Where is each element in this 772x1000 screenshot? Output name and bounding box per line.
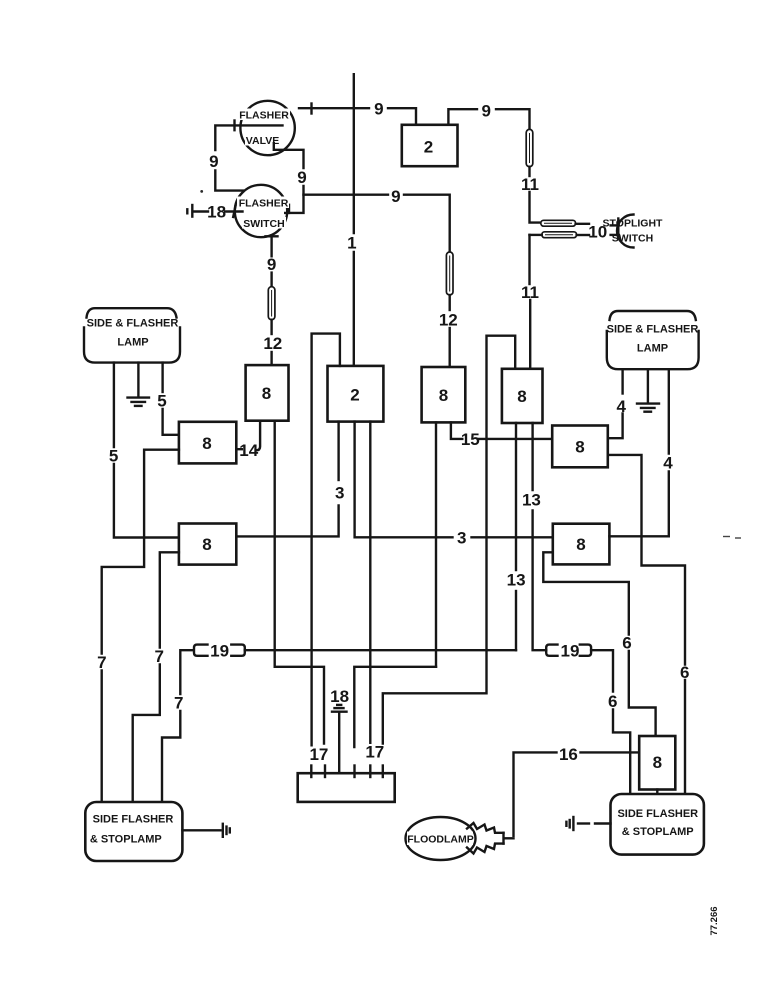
wire 6 from U7 left to box 8 U8: [543, 552, 655, 736]
label 8 (U7): [576, 535, 585, 554]
label 8 (U4): [202, 535, 211, 554]
svg-text:& STOPLAMP: & STOPLAMP: [90, 833, 162, 845]
svg-text:FLOODLAMP: FLOODLAMP: [407, 834, 474, 846]
svg-text:6: 6: [680, 663, 689, 682]
fuse on wire 11: [526, 129, 533, 166]
svg-text:4: 4: [616, 397, 626, 416]
svg-text:6: 6: [622, 634, 631, 653]
wire 7 third (connector 19 left to left stoplamp): [162, 650, 194, 802]
label 5 (upper): [157, 392, 166, 411]
wire 12 into box 8 U1: [270, 320, 272, 365]
wire 9 battery to fuse 11: [448, 109, 529, 129]
fuse on wire 12 left: [268, 287, 275, 320]
svg-text:9: 9: [297, 168, 306, 187]
connector strip: [298, 766, 395, 802]
svg-text:9: 9: [374, 100, 383, 119]
svg-text:14: 14: [239, 441, 258, 460]
side flasher & stoplamp left box: [85, 802, 182, 861]
svg-text:SIDE FLASHER: SIDE FLASHER: [93, 814, 174, 826]
label 9 (switch bottom): [267, 255, 276, 274]
wire 3 left (box2 to U4): [236, 422, 338, 537]
label 5 (lower): [109, 447, 118, 466]
svg-text:SIDE & FLASHER: SIDE & FLASHER: [607, 324, 699, 336]
svg-text:8: 8: [439, 386, 448, 405]
svg-text:8: 8: [202, 535, 211, 554]
label 15: [461, 430, 480, 449]
label STOPLIGHT: [603, 218, 663, 230]
flasher switch circle: [235, 185, 289, 237]
label 4 (upper): [616, 397, 626, 416]
svg-text:LAMP: LAMP: [117, 337, 148, 349]
wire 12 into box 8 U3: [449, 295, 451, 367]
svg-text:2: 2: [424, 138, 433, 157]
svg-text:SWITCH: SWITCH: [243, 218, 284, 230]
wire 6 from connector 19 right to right stoplamp: [591, 650, 630, 794]
wire 11 upper: [530, 167, 541, 223]
label 9 (row1): [374, 100, 383, 119]
svg-text:6: 6: [608, 692, 617, 711]
fuse on wire 12 right: [446, 252, 453, 295]
stoplight switch connector terminals: [530, 220, 590, 237]
tick on 9 row1: [310, 104, 312, 114]
label 18 (strip ground): [330, 687, 349, 706]
label FLASHER (valve): [239, 110, 289, 122]
label 17 (right): [365, 743, 384, 762]
tick at switch hook: [288, 205, 290, 213]
label 9 (row2): [391, 187, 400, 206]
wire loop from box2 top to strip (w1): [312, 334, 340, 746]
svg-text:8: 8: [653, 753, 662, 772]
svg-text:SWITCH: SWITCH: [612, 233, 653, 245]
ground at right lamp: [637, 369, 659, 412]
svg-text:8: 8: [262, 384, 271, 403]
label LAMP (right lamp): [637, 343, 668, 355]
label 12 (left): [263, 334, 282, 353]
ground lead left stoplamp: [182, 824, 229, 837]
label 4 (lower): [663, 454, 673, 473]
left corner wire to strip stub 2 (w2): [275, 667, 324, 744]
label SIDE & FLASHER (right lamp): [607, 324, 699, 336]
label 3 (vertical): [335, 484, 344, 503]
svg-text:8: 8: [517, 387, 526, 406]
label 1: [347, 234, 356, 253]
wire 16 (floodlamp to U8): [514, 752, 639, 835]
wire 5 long (left lamp to U4): [114, 363, 179, 538]
label 11 (upper): [521, 175, 539, 194]
label 7 (third): [174, 694, 183, 713]
svg-text:FLASHER: FLASHER: [239, 110, 289, 122]
label 6 (connector path): [608, 692, 617, 711]
inverted U loop to box U5 top: [383, 336, 515, 744]
wire from U3 bottom left (w-436): [435, 422, 437, 666]
label 6 (middle): [622, 634, 631, 653]
svg-text:4: 4: [663, 454, 673, 473]
side & flasher lamp right box: [607, 311, 699, 369]
wire 13 from U5 bottom to connector 19 right: [533, 423, 547, 650]
label 16: [559, 745, 578, 764]
label 9 (valve right): [297, 168, 306, 187]
label 17 (left): [309, 745, 328, 764]
label & STOPLAMP (right): [622, 826, 694, 838]
label 8 (U5): [517, 387, 526, 406]
box 8 U6: [552, 426, 608, 468]
svg-text:13: 13: [507, 571, 526, 590]
label 13 (upper): [522, 491, 541, 510]
svg-text:7: 7: [154, 647, 163, 666]
svg-text:9: 9: [481, 102, 490, 121]
svg-text:9: 9: [267, 255, 276, 274]
svg-text:7: 7: [174, 694, 183, 713]
wire 4 long (right lamp to U7): [609, 369, 668, 536]
wire 9 row to battery (left segment): [299, 108, 416, 125]
wire 14 hook from U1: [256, 421, 260, 451]
label FLASHER (switch): [239, 198, 289, 210]
label LAMP (left lamp): [117, 337, 148, 349]
wire 9 valve left loop to flasher switch: [215, 125, 282, 190]
wire 13 from U5 bottom to connector 19 row: [515, 423, 517, 650]
svg-text:17: 17: [309, 745, 328, 764]
label 8 (U8): [653, 753, 662, 772]
floodlamp: [406, 817, 504, 860]
right corner wire to strip stub 4 (w4): [354, 667, 436, 747]
svg-text:& STOPLAMP: & STOPLAMP: [622, 826, 694, 838]
speck near flasher switch: [200, 190, 203, 193]
tick on valve left wire: [233, 121, 235, 131]
svg-text:17: 17: [365, 743, 384, 762]
wire from connector 19 left to U5 loop: [245, 649, 516, 651]
label 18 (switch ground): [207, 203, 226, 222]
wire 7 first (U2 left to left stoplamp): [102, 450, 179, 802]
svg-text:19: 19: [561, 641, 580, 660]
label 8 (U6): [575, 438, 584, 457]
label 6 (right): [680, 663, 689, 682]
wire floodlamp stub: [504, 837, 514, 839]
svg-text:13: 13: [522, 491, 541, 510]
svg-text:STOPLIGHT: STOPLIGHT: [603, 218, 663, 230]
label & STOPLAMP (left): [90, 833, 162, 845]
svg-text:7: 7: [97, 653, 106, 672]
label 2 (battery): [424, 138, 433, 157]
ground at left lamp: [128, 363, 150, 406]
box 8 U4: [179, 524, 236, 565]
svg-text:3: 3: [335, 484, 344, 503]
label SIDE & FLASHER (left lamp): [87, 318, 179, 330]
box 2 middle: [328, 366, 384, 422]
wire 9 valve to switch (right side): [274, 143, 304, 213]
connector 19 left: [194, 645, 245, 656]
label 2 (middle): [350, 386, 359, 405]
svg-text:5: 5: [157, 392, 166, 411]
svg-text:15: 15: [461, 430, 480, 449]
svg-text:FLASHER: FLASHER: [239, 198, 289, 210]
svg-text:1: 1: [347, 234, 356, 253]
svg-text:9: 9: [209, 152, 218, 171]
svg-text:2: 2: [350, 386, 359, 405]
flasher valve circle: [238, 101, 295, 155]
svg-text:12: 12: [439, 311, 458, 330]
ground lead right stoplamp: [566, 817, 610, 830]
svg-text:8: 8: [575, 438, 584, 457]
label 8 (U2): [202, 434, 211, 453]
label 3 (horizontal): [457, 529, 466, 548]
svg-text:5: 5: [109, 447, 118, 466]
label VALVE: [246, 135, 279, 147]
label 7 (first): [97, 653, 106, 672]
svg-text:LAMP: LAMP: [637, 343, 668, 355]
label SIDE FLASHER (left): [93, 814, 174, 826]
box 8 U5: [502, 369, 543, 423]
wire 17 from box2 bottom right (w5): [369, 422, 371, 743]
stoplight switch symbol: [611, 215, 634, 248]
ground symbol 18 above strip: [332, 705, 347, 777]
label 9 (row1b): [481, 102, 490, 121]
svg-text:16: 16: [559, 745, 578, 764]
wire from U1 bottom right (w-274): [274, 421, 276, 667]
wire 14 stub from U2: [236, 448, 242, 450]
label 19 (right): [561, 641, 580, 660]
label 7 (second): [154, 647, 163, 666]
box 8 U3: [422, 367, 466, 422]
wire 15 (U3 to U6): [451, 422, 552, 439]
svg-text:18: 18: [330, 687, 349, 706]
box 8 U2: [179, 422, 236, 464]
label 13 (lower): [507, 571, 526, 590]
svg-text:3: 3: [457, 529, 466, 548]
label 10: [588, 223, 607, 242]
svg-text:19: 19: [210, 641, 229, 660]
battery box 2: [402, 125, 458, 166]
ground lead 18 at flasher switch: [187, 205, 242, 217]
label 12 (right): [439, 311, 458, 330]
svg-text:9: 9: [391, 187, 400, 206]
svg-text:77.266: 77.266: [709, 906, 720, 935]
label FLOODLAMP: [407, 834, 474, 846]
label SWITCH (flasher): [243, 218, 284, 230]
wire 7 second (U4 left to left stoplamp): [133, 552, 179, 802]
svg-text:12: 12: [263, 334, 282, 353]
wire 9 from switch down: [266, 235, 278, 287]
box 8 U8: [639, 736, 675, 790]
box 8 U7: [553, 524, 610, 565]
label SIDE FLASHER (right): [617, 808, 698, 820]
connector 19 right: [546, 645, 591, 656]
label 9 (valve left): [209, 152, 218, 171]
stub U8 to right stoplamp: [656, 790, 658, 795]
side & flasher lamp left box: [84, 308, 180, 362]
wire 3 right (box2 to U7): [355, 422, 553, 538]
label 11 (lower): [521, 283, 539, 302]
stray marks right of diagram: [723, 537, 741, 539]
wire 11 lower to box 8: [528, 235, 531, 369]
label 14: [239, 441, 258, 460]
svg-text:18: 18: [207, 203, 226, 222]
label 8 (U1): [262, 384, 271, 403]
wire 6 from U6 right to right stoplamp: [608, 455, 685, 794]
svg-text:8: 8: [202, 434, 211, 453]
svg-text:11: 11: [521, 175, 539, 194]
svg-text:SIDE FLASHER: SIDE FLASHER: [617, 808, 698, 820]
svg-text:11: 11: [521, 283, 539, 302]
label 19 (left): [210, 641, 229, 660]
plate number 77.266: [709, 906, 720, 935]
label SWITCH (stoplight): [612, 233, 653, 245]
svg-text:8: 8: [576, 535, 585, 554]
wire 1 (main feed from top): [353, 74, 355, 366]
wire 9 row2 from switch to fuse 12: [304, 195, 450, 252]
wire 4 (right lamp to U6): [608, 369, 623, 438]
wire 5 short (left lamp to U2): [163, 363, 179, 435]
box 8 U1: [246, 365, 289, 421]
svg-text:SIDE & FLASHER: SIDE & FLASHER: [87, 318, 179, 330]
label 8 (U3): [439, 386, 448, 405]
side flasher & stoplamp right box: [611, 794, 704, 855]
